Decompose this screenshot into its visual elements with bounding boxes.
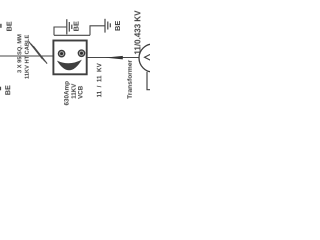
wire incoming 11KV HT cable: [0, 55, 53, 57]
cable slash marks: [29, 42, 47, 64]
svg-text:Transformer: Transformer: [127, 59, 134, 98]
wire ground G2 drop: [90, 26, 105, 36]
VCB box: [53, 41, 86, 75]
svg-text:BE: BE: [5, 21, 14, 31]
wire ground G1 drop: [54, 27, 66, 35]
VCB arc: [57, 60, 82, 71]
svg-text:11 / 11 KV: 11 / 11 KV: [96, 62, 103, 97]
transformer circle: [139, 44, 167, 72]
ground (cut) top-left: [0, 24, 2, 28]
transformer delta winding: [145, 53, 153, 61]
arrow on feeder: [105, 56, 123, 60]
ground (cut) bottom-left: [0, 87, 1, 91]
VCB contact left: [58, 50, 64, 56]
svg-text:BE: BE: [72, 21, 81, 31]
svg-text:3 X 95 SQ. MM: 3 X 95 SQ. MM: [17, 34, 23, 73]
svg-text:BE: BE: [3, 85, 12, 95]
ground G1: [67, 19, 72, 34]
svg-text:11KV HT CABLE: 11KV HT CABLE: [25, 35, 31, 79]
svg-text:BE: BE: [113, 21, 122, 31]
svg-text:11/0.433 KV: 11/0.433 KV: [133, 10, 142, 55]
svg-text:630Amp: 630Amp: [64, 81, 71, 106]
earth bus above VCB: [54, 34, 90, 36]
VCB contact right: [78, 50, 84, 56]
wire transformer LV exit: [147, 72, 150, 90]
ground G2: [105, 19, 110, 33]
svg-text:VCB: VCB: [78, 85, 85, 99]
wire VCB to transformer: [87, 57, 139, 59]
